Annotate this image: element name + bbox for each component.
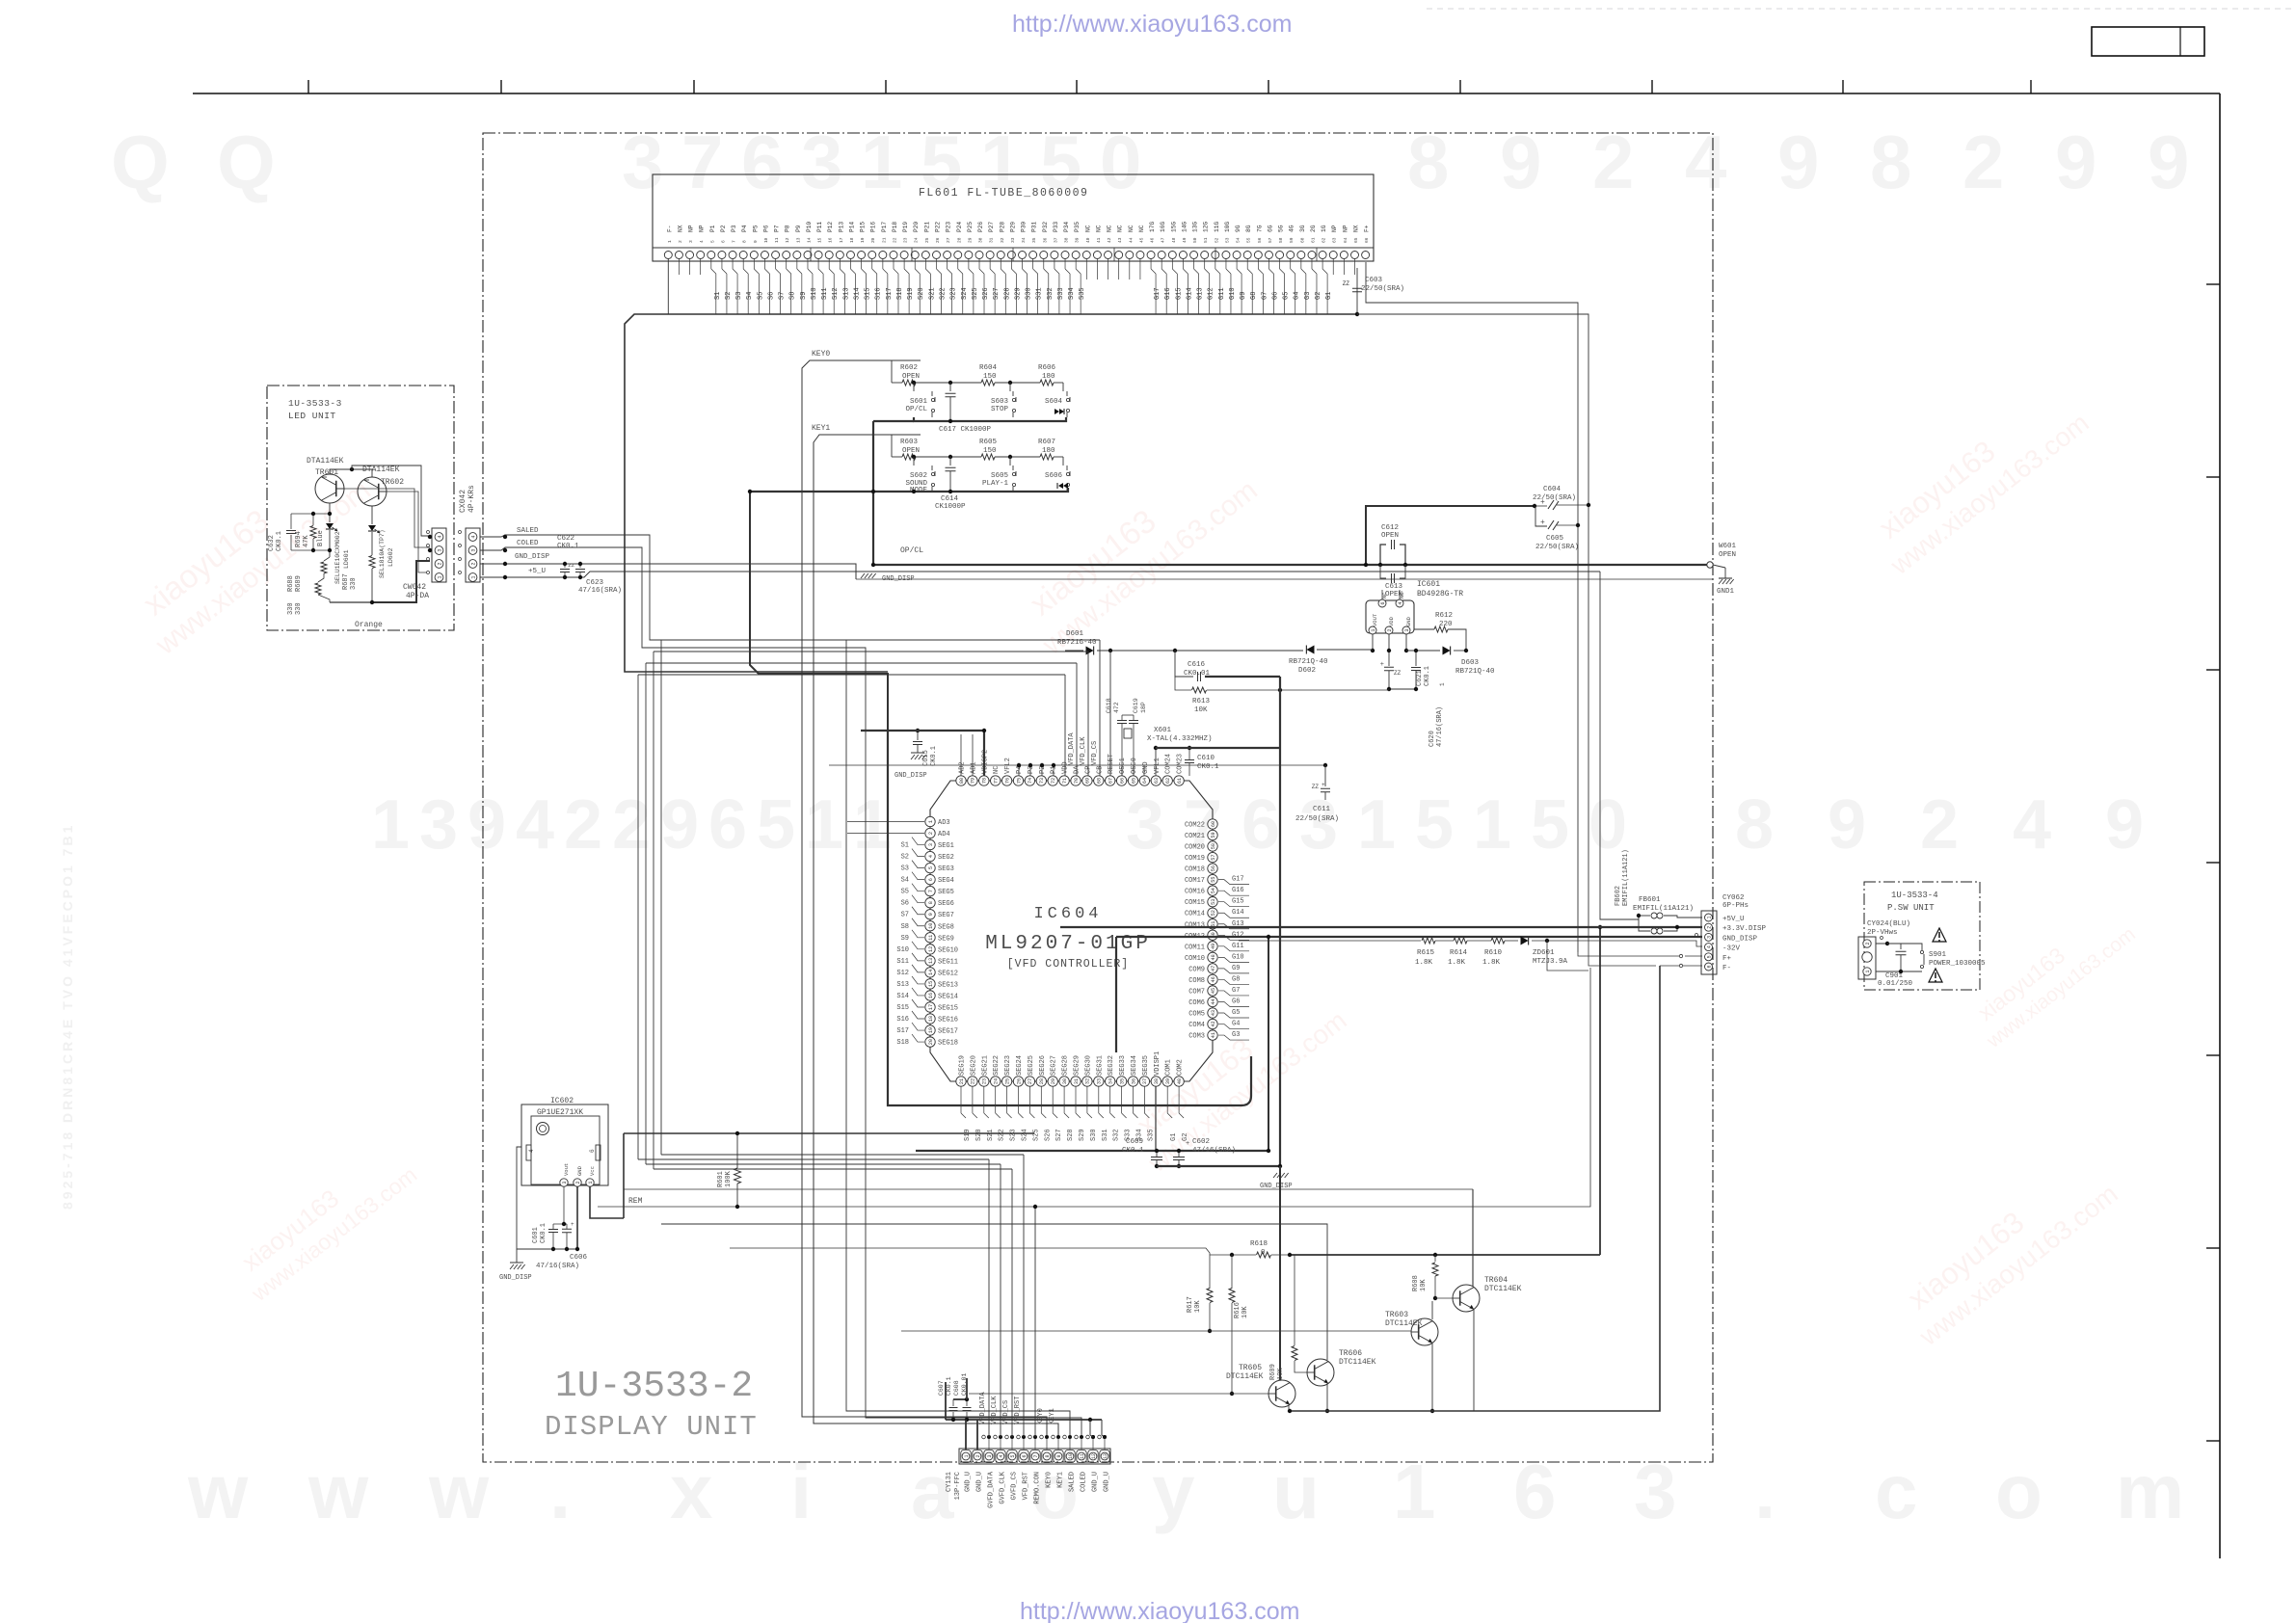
svg-text:G8: G8 — [1250, 292, 1258, 300]
svg-text:C623: C623 — [586, 579, 604, 587]
svg-text:P16: P16 — [870, 222, 877, 232]
svg-text:R613: R613 — [1192, 698, 1211, 705]
svg-text:C616: C616 — [1188, 661, 1206, 669]
svg-text:COM3: COM3 — [1188, 1033, 1205, 1041]
title block top right — [2092, 27, 2204, 56]
wire key row 0 switch bus — [913, 383, 915, 391]
svg-text:14G: 14G — [1181, 222, 1188, 232]
svg-text:o: o — [1995, 1449, 2042, 1534]
svg-text:42: 42 — [1211, 1021, 1216, 1026]
svg-text:S26: S26 — [1044, 1129, 1052, 1141]
svg-text:C606: C606 — [570, 1254, 588, 1262]
FL601 FL-TUBE_8060009 display tube — [653, 174, 1374, 261]
svg-text:5: 5 — [928, 866, 934, 869]
svg-text:4: 4 — [516, 786, 554, 864]
svg-text:25: 25 — [924, 237, 930, 243]
svg-text:COM23: COM23 — [1177, 754, 1185, 774]
svg-text:29: 29 — [967, 237, 973, 243]
svg-text:1: 1 — [1473, 786, 1511, 864]
svg-text:4: 4 — [528, 1149, 535, 1153]
svg-text:GVFD_DATA: GVFD_DATA — [988, 1471, 996, 1508]
svg-text:10K: 10K — [1241, 1306, 1249, 1318]
svg-text:4: 4 — [1398, 601, 1403, 604]
zener ZD601 MTZJ3.9A — [1521, 937, 1529, 945]
svg-text:8: 8 — [1870, 120, 1911, 204]
svg-text:P12: P12 — [827, 222, 834, 232]
wire -32V open stubs — [1695, 934, 1698, 937]
svg-text:m: m — [2116, 1449, 2184, 1534]
LED unit boundary dashed box 1U-3533-3 — [267, 386, 454, 630]
svg-text:6: 6 — [1380, 601, 1386, 604]
svg-text:S14: S14 — [853, 287, 861, 300]
IC602 side pins — [526, 1145, 531, 1160]
svg-text:SEG10: SEG10 — [938, 946, 958, 954]
svg-text:BD4928G-TR: BD4928G-TR — [1417, 590, 1463, 599]
svg-text:KEY1: KEY1 — [1049, 1408, 1056, 1424]
svg-text:COM21: COM21 — [1185, 833, 1205, 840]
svg-text:R610: R610 — [1484, 949, 1503, 957]
svg-text:P15: P15 — [860, 222, 867, 232]
svg-text:P3: P3 — [731, 225, 737, 232]
svg-text:52: 52 — [1214, 237, 1219, 243]
IC604 left pins 1-20 — [925, 816, 935, 826]
svg-text:2P-VHws: 2P-VHws — [1867, 929, 1898, 937]
svg-text:1: 1 — [1439, 682, 1446, 686]
wire LED emitters rail — [330, 469, 372, 477]
switch S603 STOP — [1012, 398, 1015, 401]
svg-text:TR604: TR604 — [1484, 1276, 1508, 1285]
svg-text:G6: G6 — [1232, 998, 1240, 1005]
svg-text:GND: GND — [1142, 761, 1150, 774]
page border right line — [2219, 93, 2221, 1558]
svg-text:SEG35: SEG35 — [1142, 1055, 1150, 1076]
svg-text:[VFD CONTROLLER]: [VFD CONTROLLER] — [1007, 958, 1129, 971]
svg-text:14: 14 — [928, 970, 934, 975]
svg-text:S7: S7 — [901, 912, 909, 919]
svg-text:S21: S21 — [928, 287, 936, 300]
IC602 bottom pins — [560, 1179, 568, 1186]
svg-text:KEY0: KEY0 — [1046, 1472, 1054, 1488]
svg-text:GND_DISP: GND_DISP — [499, 1274, 532, 1282]
svg-text:SEG27: SEG27 — [1051, 1055, 1058, 1076]
svg-text:22/50(SRA): 22/50(SRA) — [1533, 494, 1576, 502]
svg-text:32: 32 — [1085, 1078, 1091, 1084]
svg-text:SEG30: SEG30 — [1084, 1055, 1092, 1076]
svg-text:COM7: COM7 — [1188, 988, 1205, 996]
svg-text:77: 77 — [994, 778, 1000, 784]
svg-text:VFD_CLK: VFD_CLK — [1080, 736, 1087, 765]
svg-text:9: 9 — [1777, 120, 1819, 204]
svg-text:70: 70 — [1074, 778, 1080, 784]
svg-text:72: 72 — [1051, 778, 1056, 784]
svg-text:7G: 7G — [1256, 225, 1263, 232]
svg-text:S12: S12 — [896, 970, 909, 977]
switch S605 PLAY-1 — [1012, 472, 1015, 475]
svg-text:43: 43 — [1117, 237, 1123, 243]
page border top line — [193, 93, 2220, 94]
svg-text:D602: D602 — [1298, 667, 1316, 675]
capacitor C623 47/16(SRA) — [579, 564, 581, 568]
svg-text:COM10: COM10 — [1185, 955, 1205, 963]
svg-text:47K: 47K — [303, 535, 310, 547]
svg-text:y: y — [1152, 1449, 1195, 1534]
svg-text:G5: G5 — [1232, 1009, 1240, 1017]
svg-text:C619: C619 — [1133, 698, 1139, 713]
svg-text:6: 6 — [1022, 1454, 1028, 1457]
svg-text:56: 56 — [1211, 865, 1216, 871]
svg-text:P14: P14 — [848, 222, 855, 232]
svg-text:S20: S20 — [975, 1129, 983, 1141]
svg-text:53: 53 — [1211, 899, 1216, 905]
svg-text:2: 2 — [975, 1454, 981, 1457]
svg-text:DTC114EK: DTC114EK — [1484, 1285, 1522, 1293]
svg-text:1U-3533-2: 1U-3533-2 — [555, 1366, 753, 1407]
svg-text:10K: 10K — [1194, 706, 1208, 714]
svg-text:C605: C605 — [1546, 535, 1564, 543]
svg-text:S20: S20 — [918, 287, 925, 300]
svg-text:S35: S35 — [1079, 287, 1086, 300]
svg-text:61: 61 — [1177, 778, 1183, 784]
svg-text:22: 22 — [892, 237, 897, 243]
svg-text:1U-3533-3: 1U-3533-3 — [288, 398, 342, 409]
svg-text:4P-KRs: 4P-KRs — [467, 485, 476, 513]
svg-text:VDISP2: VDISP2 — [981, 750, 989, 774]
svg-text:48: 48 — [1211, 954, 1216, 960]
svg-text:FB601: FB601 — [1639, 896, 1661, 904]
svg-text:2: 2 — [1592, 120, 1634, 204]
IC604 right G17-G3 labels — [1218, 880, 1249, 885]
svg-text:47/16(SRA): 47/16(SRA) — [1192, 1147, 1236, 1155]
svg-text:SEG8: SEG8 — [938, 923, 954, 931]
svg-text:45: 45 — [1138, 237, 1144, 243]
svg-text:-32V: -32V — [1722, 945, 1741, 953]
svg-text:POWER_1030005: POWER_1030005 — [1929, 960, 1986, 968]
svg-text:S5: S5 — [901, 889, 909, 896]
svg-text:2: 2 — [678, 240, 683, 243]
svg-text:COM24: COM24 — [1165, 754, 1173, 774]
IC604 bottom pins 21-40 — [956, 1077, 966, 1086]
svg-text:VOUT: VOUT — [1372, 613, 1378, 626]
svg-text:VFD_CS: VFD_CS — [1002, 1400, 1010, 1424]
svg-text:6: 6 — [1513, 1449, 1557, 1534]
svg-text:27: 27 — [946, 237, 951, 243]
svg-text:KEY0: KEY0 — [812, 350, 830, 359]
svg-text:330: 330 — [295, 602, 303, 615]
wire LED top rail — [291, 513, 330, 515]
svg-text:12G: 12G — [1203, 222, 1210, 232]
svg-text:C617 CK1000P: C617 CK1000P — [939, 426, 992, 434]
svg-text:13: 13 — [795, 237, 801, 243]
capacitor C603 22/50(SRA) — [1352, 287, 1362, 289]
svg-text:DA: DA — [1074, 765, 1081, 774]
wire OSC VFL feeds — [1121, 765, 1123, 776]
svg-text:ZZ: ZZ — [568, 562, 574, 569]
svg-text:24: 24 — [914, 237, 920, 243]
svg-text:OSC1: OSC1 — [1119, 758, 1127, 774]
svg-text:RESET: RESET — [1108, 754, 1115, 774]
svg-text:S2: S2 — [725, 292, 733, 300]
svg-text:LD601: LD601 — [343, 549, 350, 569]
svg-text:1: 1 — [928, 820, 934, 823]
svg-text:9: 9 — [2105, 786, 2144, 864]
svg-text:9: 9 — [2148, 120, 2189, 204]
svg-text:S22: S22 — [940, 287, 948, 300]
svg-text:G6: G6 — [1271, 292, 1279, 300]
svg-text:PLAY-1: PLAY-1 — [982, 480, 1009, 488]
svg-text:C610: C610 — [1197, 755, 1215, 762]
svg-text:RB721Q-40: RB721Q-40 — [1455, 668, 1495, 676]
svg-text:http://www.xiaoyu163.com: http://www.xiaoyu163.com — [1020, 1598, 1299, 1623]
svg-text:GND: GND — [576, 1165, 583, 1176]
svg-text:G13: G13 — [1197, 287, 1205, 300]
svg-text:COM17: COM17 — [1185, 877, 1205, 885]
svg-text:NP: NP — [699, 225, 706, 232]
wire VFD bus horizontals from left — [638, 674, 1065, 676]
svg-text:5: 5 — [1706, 955, 1712, 958]
svg-text:R604: R604 — [979, 364, 998, 372]
svg-text:COM19: COM19 — [1185, 855, 1205, 863]
svg-text:DTA114EK: DTA114EK — [362, 466, 400, 474]
svg-text:68: 68 — [1097, 778, 1103, 784]
wire GND_DISP thin long — [856, 578, 1713, 580]
svg-text:OPEN: OPEN — [1381, 532, 1399, 540]
svg-text:NC: NC — [1138, 225, 1145, 232]
svg-text:13G: 13G — [1192, 222, 1199, 232]
svg-text:16G: 16G — [1160, 222, 1166, 232]
svg-text:COM18: COM18 — [1185, 866, 1205, 874]
svg-text:C901: C901 — [1885, 972, 1904, 980]
watermark pink diagonal stamps — [123, 441, 376, 661]
svg-text:46: 46 — [1150, 237, 1156, 243]
svg-text:6: 6 — [1706, 965, 1712, 968]
wire thick bus below IC604 to C609 C602 — [1155, 1086, 1157, 1151]
svg-text:SEG11: SEG11 — [938, 958, 958, 966]
svg-text:6: 6 — [741, 120, 783, 204]
svg-text:23: 23 — [982, 1078, 988, 1084]
wire key return thick to IC loop — [750, 492, 888, 731]
svg-text:+3.3V.DISP: +3.3V.DISP — [1722, 925, 1767, 933]
svg-text:44: 44 — [1128, 237, 1134, 243]
svg-text:54: 54 — [1236, 237, 1241, 243]
svg-text:CY024(BLU): CY024(BLU) — [1867, 920, 1910, 928]
svg-text:SEG17: SEG17 — [938, 1028, 958, 1036]
svg-text:28: 28 — [1039, 1078, 1045, 1084]
svg-text:TR602: TR602 — [381, 478, 404, 487]
wire thin long above IC604 — [829, 764, 1325, 766]
svg-text:6: 6 — [1241, 786, 1280, 864]
wire thick top of IC604 — [1156, 747, 1280, 749]
svg-text:59: 59 — [1211, 832, 1216, 838]
svg-text:CK0.1: CK0.1 — [1122, 1147, 1144, 1155]
svg-text:COM8: COM8 — [1188, 977, 1205, 985]
svg-text:1.8K: 1.8K — [1448, 959, 1466, 967]
svg-text:64: 64 — [1142, 778, 1148, 784]
svg-text:16: 16 — [828, 237, 834, 243]
svg-text:Q: Q — [111, 120, 187, 204]
diode D602 RB721Q-40 — [1306, 646, 1314, 654]
LED LD601 blue — [329, 503, 331, 522]
svg-text:P27: P27 — [988, 222, 995, 232]
svg-text:NC: NC — [993, 766, 1001, 774]
svg-text:30: 30 — [1062, 1078, 1068, 1084]
IC604 right pins 60-41 — [1208, 819, 1217, 829]
wire KEY1 — [814, 435, 1058, 1437]
svg-text:SEG26: SEG26 — [1039, 1055, 1047, 1076]
svg-text:S603: S603 — [991, 398, 1009, 406]
svg-text:R605: R605 — [979, 439, 998, 446]
svg-text:P6: P6 — [762, 225, 769, 232]
svg-text:DTC114EK: DTC114EK — [1339, 1358, 1376, 1367]
svg-text:55: 55 — [1246, 237, 1252, 243]
LED unit junction dots — [428, 535, 432, 539]
svg-text:RB721Q-40: RB721Q-40 — [1289, 658, 1328, 666]
svg-text:G2: G2 — [1315, 292, 1322, 300]
svg-text:CK0.1: CK0.1 — [1424, 666, 1431, 686]
svg-text:74: 74 — [1028, 778, 1033, 784]
svg-text:SEG4: SEG4 — [938, 877, 954, 885]
svg-text:SELU1E10CXM002: SELU1E10CXM002 — [334, 531, 341, 584]
svg-text:OPEN: OPEN — [902, 373, 920, 381]
wire key row 0 — [892, 382, 902, 384]
svg-text:S29: S29 — [1079, 1129, 1086, 1141]
svg-text:S5: S5 — [757, 292, 764, 300]
svg-text:P26: P26 — [977, 222, 984, 232]
svg-text:6: 6 — [928, 878, 934, 881]
svg-text:S29: S29 — [1014, 287, 1022, 300]
svg-text:10: 10 — [1068, 1453, 1074, 1459]
FL601 segment wires and labels S1-S35 — [710, 259, 712, 270]
svg-text:C620: C620 — [1428, 731, 1436, 747]
svg-text:150: 150 — [983, 447, 997, 455]
svg-text:50: 50 — [1192, 237, 1198, 243]
wire emitter bus — [1290, 966, 1660, 1411]
svg-text:+: + — [1322, 782, 1325, 788]
svg-text:48: 48 — [1171, 237, 1177, 243]
svg-text:3: 3 — [1634, 1449, 1677, 1534]
svg-text:P19: P19 — [902, 222, 909, 232]
svg-text:15: 15 — [817, 237, 823, 243]
svg-text:58: 58 — [1211, 843, 1216, 849]
svg-text:SEG3: SEG3 — [938, 865, 954, 873]
svg-text:S14: S14 — [896, 993, 909, 1000]
svg-text:44: 44 — [1211, 998, 1216, 1004]
wire IC602 Vcc rail thick — [623, 1133, 625, 1218]
svg-text:5: 5 — [757, 786, 795, 864]
svg-text:SEG23: SEG23 — [1004, 1055, 1012, 1076]
svg-text:S3: S3 — [901, 865, 909, 873]
svg-text:SEG25: SEG25 — [1028, 1055, 1035, 1076]
svg-text:S4: S4 — [901, 877, 909, 885]
svg-text:w: w — [428, 1449, 490, 1534]
svg-text:150: 150 — [983, 373, 997, 381]
svg-text:23: 23 — [903, 237, 909, 243]
svg-text:10K: 10K — [1420, 1279, 1428, 1291]
diode D603 RB721Q-40 — [1406, 650, 1440, 652]
FL601 pin row dividers — [810, 248, 812, 261]
wire key row 1 — [892, 456, 902, 458]
svg-text:2: 2 — [575, 1181, 581, 1184]
svg-text:+: + — [1540, 519, 1545, 527]
wire IC602 pins down — [563, 1186, 565, 1224]
svg-text:42: 42 — [1107, 237, 1112, 243]
wire filament vertical B — [1357, 314, 1589, 927]
svg-text:4G: 4G — [1289, 225, 1295, 232]
svg-text:NC: NC — [1128, 225, 1135, 232]
svg-text:NP: NP — [1331, 225, 1338, 232]
wire P1-P4 feeds from long wire — [1018, 765, 1020, 776]
svg-text:S18: S18 — [896, 287, 904, 300]
svg-text:6G: 6G — [1267, 225, 1273, 232]
ground GND_DISP mid — [861, 573, 865, 578]
svg-text:CY062: CY062 — [1722, 894, 1745, 902]
svg-text:S25: S25 — [972, 287, 979, 300]
svg-text:S7: S7 — [779, 292, 787, 300]
wire regulator bottom rail — [1389, 688, 1416, 690]
svg-text:S601: S601 — [910, 398, 928, 406]
svg-text:S13: S13 — [896, 981, 909, 989]
FL601 grid wire labels G17-G1 — [1150, 259, 1152, 270]
wire thick to +3.3V riser — [1290, 1254, 1600, 1256]
wire OP/CL vertical — [872, 421, 874, 565]
svg-text:S11: S11 — [896, 958, 909, 966]
svg-text:3: 3 — [622, 120, 663, 204]
svg-text:7: 7 — [928, 890, 934, 892]
svg-text:G17: G17 — [1232, 876, 1244, 884]
svg-text:17G: 17G — [1149, 222, 1156, 232]
svg-text:KEY0: KEY0 — [1037, 1408, 1045, 1424]
svg-text:35: 35 — [1119, 1078, 1125, 1084]
svg-text:2: 2 — [928, 832, 934, 835]
svg-text:S6: S6 — [901, 900, 909, 908]
svg-text:CK0.1: CK0.1 — [540, 1223, 547, 1243]
svg-text:8: 8 — [1735, 786, 1774, 864]
svg-text:1: 1 — [437, 575, 442, 578]
svg-text:S8: S8 — [901, 923, 909, 931]
svg-text:9: 9 — [753, 240, 759, 243]
svg-text:c: c — [1875, 1449, 1918, 1534]
svg-text:SEG15: SEG15 — [938, 1004, 958, 1012]
svg-text:MTZJ3.9A: MTZJ3.9A — [1533, 958, 1568, 966]
svg-text:CK0.1: CK0.1 — [946, 1376, 952, 1396]
wire thick VDISP2 feed — [861, 731, 984, 776]
svg-text:33: 33 — [1097, 1078, 1103, 1084]
svg-text:GVFD_CLK: GVFD_CLK — [1000, 1471, 1007, 1503]
svg-text:AD1: AD1 — [970, 761, 977, 774]
svg-text:COM14: COM14 — [1185, 911, 1205, 918]
svg-text:COM9: COM9 — [1188, 966, 1205, 973]
svg-text:LD602: LD602 — [387, 547, 394, 567]
svg-text:C622: C622 — [557, 535, 574, 543]
capacitor C606 47/16(SRA) — [562, 1228, 572, 1230]
capacitor C602 47/16(SRA) — [1173, 1157, 1185, 1158]
svg-text:49: 49 — [1182, 237, 1188, 243]
svg-text:47/16(SRA): 47/16(SRA) — [1436, 706, 1444, 747]
wires CY131 vfd nets up — [988, 1159, 990, 1437]
svg-text:G15: G15 — [1232, 898, 1244, 906]
svg-text:12: 12 — [928, 946, 934, 952]
svg-text:2: 2 — [1920, 786, 1959, 864]
svg-text:73: 73 — [1039, 778, 1045, 784]
wire key row 1 switch bus — [913, 457, 915, 466]
svg-text:P1: P1 — [709, 225, 716, 232]
svg-text:21: 21 — [881, 237, 887, 243]
wire GND_U to pins 12 13 — [1091, 1435, 1095, 1439]
svg-text:1: 1 — [1357, 786, 1396, 864]
svg-text:33: 33 — [1010, 237, 1016, 243]
IC604 bottom S19-S35 G1 G2 labels — [960, 1086, 962, 1113]
svg-text:G10: G10 — [1229, 287, 1237, 300]
resistors R615 R614 R610 1.8K — [1239, 940, 1421, 942]
